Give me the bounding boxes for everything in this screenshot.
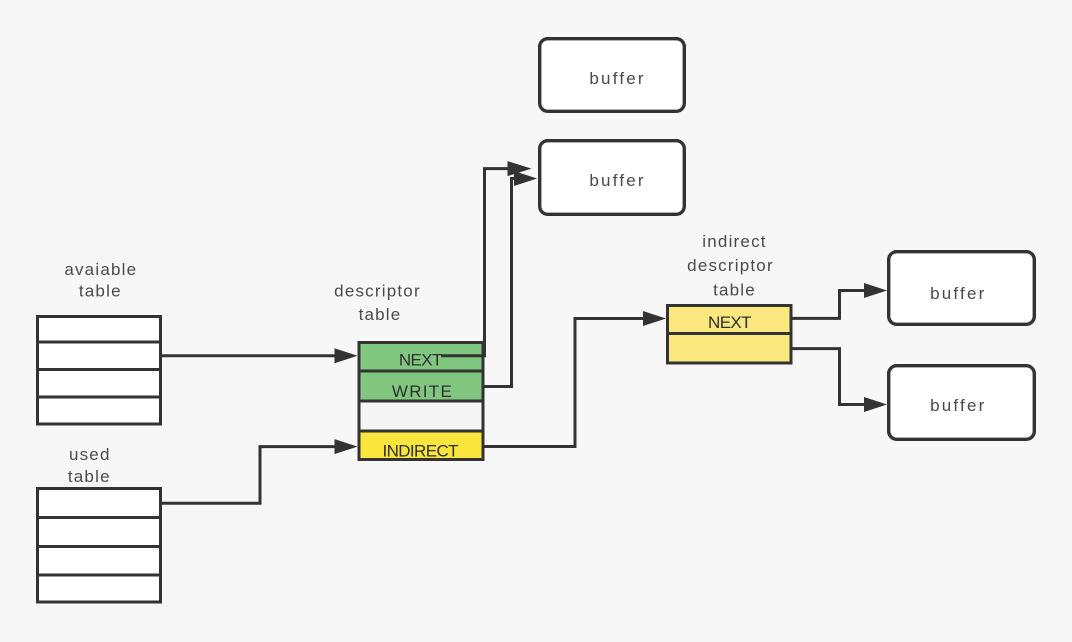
svg-text:buffer: buffer bbox=[589, 171, 645, 190]
arrowhead into descriptor table INDIRECT row bbox=[335, 439, 358, 454]
arrowhead into buffer 3 bbox=[864, 283, 887, 298]
indirect table outer border bbox=[668, 306, 792, 364]
wire descriptor WRITE row up to buffer 2 bbox=[485, 179, 518, 387]
svg-text:buffer: buffer bbox=[589, 69, 645, 88]
indirect NEXT row fill bbox=[667, 306, 792, 334]
svg-text:NEXT: NEXT bbox=[399, 351, 442, 370]
arrowhead into indirect descriptor table bbox=[643, 311, 666, 326]
svg-text:descriptor: descriptor bbox=[334, 281, 421, 300]
row NEXT fill bbox=[359, 343, 484, 372]
buffer box 2 bbox=[540, 141, 685, 215]
svg-text:descriptor: descriptor bbox=[687, 256, 774, 275]
wire indirect second row to buffer 4 bbox=[793, 349, 870, 405]
row empty fill bbox=[359, 401, 484, 431]
svg-text:INDIRECT: INDIRECT bbox=[382, 442, 458, 461]
svg-text:table: table bbox=[359, 305, 402, 324]
svg-text:WRITE: WRITE bbox=[392, 382, 453, 401]
indirect second row fill bbox=[667, 334, 792, 364]
svg-text:buffer: buffer bbox=[930, 396, 986, 415]
svg-text:table: table bbox=[68, 467, 111, 486]
svg-text:avaiable: avaiable bbox=[64, 260, 137, 279]
descriptor table outer border bbox=[359, 343, 483, 460]
available table bbox=[38, 317, 161, 425]
arrowhead of NEXT wire bbox=[508, 161, 532, 176]
svg-text:buffer: buffer bbox=[930, 284, 986, 303]
arrowhead into descriptor table NEXT row bbox=[335, 348, 358, 363]
used table bbox=[38, 489, 161, 603]
indirect descriptor table bbox=[667, 306, 792, 364]
arrowhead into buffer 4 bbox=[864, 397, 887, 412]
svg-text:indirect: indirect bbox=[702, 232, 766, 251]
wire descriptor INDIRECT row to indirect descriptor table bbox=[485, 319, 649, 447]
indirect row divider bbox=[668, 332, 792, 335]
row WRITE fill bbox=[359, 371, 484, 401]
buffer box 3 (right top) bbox=[889, 252, 1035, 325]
arrowhead of WRITE wire into buffer 2 bbox=[514, 171, 537, 186]
wire used-table to descriptor-table INDIRECT bbox=[162, 447, 339, 504]
svg-text:table: table bbox=[713, 280, 756, 299]
svg-text:used: used bbox=[69, 445, 111, 464]
row dividers bbox=[359, 371, 483, 431]
row INDIRECT fill bbox=[359, 431, 484, 460]
buffer box 1 (top) bbox=[540, 39, 685, 112]
buffer box 4 (right bottom) bbox=[889, 366, 1035, 440]
wire descriptor NEXT row up to buffer 2 bbox=[441, 169, 512, 356]
wire indirect NEXT row to buffer 3 bbox=[793, 291, 870, 319]
svg-text:table: table bbox=[79, 281, 122, 300]
descriptor table bbox=[359, 343, 484, 461]
svg-text:NEXT: NEXT bbox=[708, 313, 751, 332]
wire available-table to descriptor-table NEXT bbox=[162, 354, 339, 357]
